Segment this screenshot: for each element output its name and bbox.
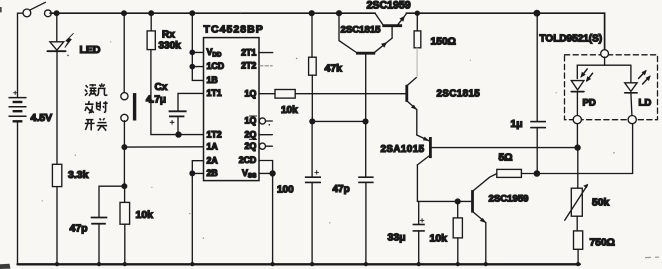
wire rail to pushbutton xyxy=(123,13,125,93)
wire Cx to 1T2 node xyxy=(177,116,179,134)
wire 5 ohm to LD node xyxy=(521,173,537,175)
svg-text:2B: 2B xyxy=(207,168,218,178)
label 3.3k xyxy=(68,169,89,181)
svg-text:47p: 47p xyxy=(333,184,350,195)
label 2SA1015 xyxy=(381,144,425,155)
laser module U2 TOLD9521(S) dashed enclosure xyxy=(565,55,658,120)
resistor R8 5 ohm xyxy=(497,169,522,177)
label 33μ xyxy=(388,232,406,244)
wire to pin VDD xyxy=(192,51,203,53)
node LED column joins V+ rail xyxy=(54,11,59,16)
svg-text:1B: 1B xyxy=(207,75,218,85)
pin 1T2 label xyxy=(207,129,222,139)
svg-text:5Ω: 5Ω xyxy=(499,153,513,164)
svg-text:2SC1959: 2SC1959 xyxy=(367,0,411,12)
capacitor C4 47p xyxy=(358,177,373,182)
node 1μ joins switched rail xyxy=(534,10,540,16)
pin 2T2 label and faint stub xyxy=(241,61,272,71)
wire 47k down crossing 1Q wire xyxy=(311,75,313,121)
label LED xyxy=(80,44,101,56)
pushbutton S2 laser fire switch xyxy=(121,93,136,122)
wire rail to LED anode xyxy=(56,13,58,41)
resistor 3.3k xyxy=(52,164,61,186)
wire PD terminal down to base node xyxy=(576,124,578,148)
node Cx bottom joins 1T2 wire xyxy=(176,132,181,137)
wire 2CD Vss to ground rail xyxy=(272,173,274,264)
wire pot to resistor 750 xyxy=(576,216,578,231)
pin 1Q label xyxy=(245,88,257,98)
wire C3 to ground rail xyxy=(311,182,313,264)
wire C4 to ground rail xyxy=(365,182,367,264)
svg-text:3.3k: 3.3k xyxy=(68,169,89,181)
label 5Ω xyxy=(499,153,513,164)
resistor Rx 330k xyxy=(147,31,155,50)
label Rx xyxy=(162,30,175,41)
svg-text:1T1: 1T1 xyxy=(207,88,222,98)
LED D1 xyxy=(47,33,73,56)
label 10k xyxy=(136,209,154,221)
label 750Ω xyxy=(590,238,615,249)
wire Rx to pin 1T2 xyxy=(151,50,204,135)
wire PD cathode to terminal xyxy=(576,92,578,116)
wire pins 2CD Vss tied xyxy=(259,161,273,174)
node ground junctions xyxy=(55,262,580,266)
node 150 ohm joins switched rail xyxy=(415,11,419,15)
label 47p xyxy=(70,223,88,235)
svg-text:1CD: 1CD xyxy=(207,61,225,71)
node Q1 collector joins V+ rail xyxy=(337,11,342,16)
node bias junction left xyxy=(310,119,315,124)
wire Q3 base to PD node xyxy=(432,147,578,149)
label 开关 xyxy=(85,118,107,130)
svg-text:150Ω: 150Ω xyxy=(431,37,456,48)
wire ground rail xyxy=(18,263,580,265)
pin 1Q-bar label with bubble and stub xyxy=(245,116,273,126)
photodiode PD xyxy=(571,69,592,92)
wire node B to capacitor 47p C2 xyxy=(99,186,124,217)
svg-text:2CD: 2CD xyxy=(239,155,257,165)
node C junction at 10k R7 xyxy=(455,199,460,204)
svg-text:2T2: 2T2 xyxy=(241,61,256,71)
transistor Q1 2SC1815 xyxy=(339,13,392,53)
wire node A down to node B xyxy=(123,147,125,186)
wire Q2 emitter to Q3 emitter xyxy=(416,110,418,135)
node pushbutton column joins V+ rail xyxy=(122,11,127,16)
svg-text:LED: LED xyxy=(80,44,101,56)
pin 2T1 label and stub xyxy=(241,47,273,57)
pin 1T1 label xyxy=(207,88,222,98)
terminal LD pin of U2 xyxy=(628,116,636,124)
wire bias junction left to right xyxy=(312,120,365,122)
pin 1A label xyxy=(207,142,219,152)
wire pin 1Q to resistor 10k R4 xyxy=(259,93,275,95)
svg-text:10k: 10k xyxy=(281,105,298,116)
label 2SC1959 xyxy=(367,0,411,12)
svg-text:1Q: 1Q xyxy=(245,88,257,98)
resistor R7 10k xyxy=(453,218,462,238)
switch S1 xyxy=(23,2,51,16)
pin 2A label xyxy=(207,155,219,165)
pin 1CD label xyxy=(207,61,225,71)
svg-text:2A: 2A xyxy=(207,155,219,165)
label 发射 xyxy=(85,101,108,113)
pin 2B label xyxy=(207,168,218,178)
transistor Q4 2SC1959 xyxy=(473,174,497,223)
op-amp U1 TC4528BP body xyxy=(204,38,260,181)
label TC4528BP xyxy=(204,24,264,36)
label 1μ xyxy=(511,119,523,130)
resistor R3 10k xyxy=(120,202,130,224)
label 47k xyxy=(325,63,343,75)
label 4.7μ xyxy=(146,95,166,106)
label 2SC1959 xyxy=(489,194,529,205)
svg-text:2Q: 2Q xyxy=(245,129,257,139)
wire node C to Q4 base xyxy=(417,200,471,202)
wire C5 to ground rail xyxy=(418,231,420,264)
svg-text:50k: 50k xyxy=(592,198,609,209)
label 2SC1815 xyxy=(341,25,382,36)
pin VDD label xyxy=(207,47,222,58)
wire pins 2A 2B tied xyxy=(192,161,203,174)
svg-text:LD: LD xyxy=(639,98,652,109)
label 150Ω xyxy=(431,37,456,48)
svg-text:10k: 10k xyxy=(136,209,154,221)
svg-text:2SC1815: 2SC1815 xyxy=(341,25,382,36)
capacitor C3 100 electrolytic xyxy=(305,170,321,182)
wire 1μ to LD drive node crossing base wire xyxy=(536,128,538,174)
wire top rail switched segment xyxy=(406,13,604,50)
svg-text:PD: PD xyxy=(583,98,596,109)
svg-text:47k: 47k xyxy=(325,63,343,75)
terminal PD pin of U2 xyxy=(573,116,581,124)
svg-text:2SA1015: 2SA1015 xyxy=(381,144,425,155)
resistor R6 150 ohm xyxy=(414,31,421,48)
label 47p xyxy=(333,184,350,195)
node pin VDD tie xyxy=(190,50,194,54)
wire R4 to base of Q2 xyxy=(295,93,405,95)
wire rail to capacitor 1μ xyxy=(536,13,538,121)
laser diode LD xyxy=(625,70,651,93)
svg-text:Rx: Rx xyxy=(162,30,175,41)
wire rail to resistor Rx xyxy=(150,13,152,31)
capacitor C2 47p xyxy=(91,218,108,224)
resistor R9 750 ohm xyxy=(574,231,583,249)
label 2SC1815 xyxy=(437,89,481,100)
svg-text:2T1: 2T1 xyxy=(241,47,256,57)
battery B1 4.5V xyxy=(9,91,27,122)
pin Vss label xyxy=(242,168,256,179)
label PD xyxy=(583,98,596,109)
wire LD drive node to LD terminal xyxy=(537,124,633,174)
label 10k xyxy=(281,105,298,116)
svg-text:1Q: 1Q xyxy=(245,116,257,126)
wire node B to resistor 10k R3 xyxy=(124,186,126,202)
wire bias node to capacitor 100 xyxy=(311,121,313,176)
svg-text:100: 100 xyxy=(277,185,294,196)
wire R3 to ground rail xyxy=(124,224,126,264)
svg-text:33μ: 33μ xyxy=(388,232,406,244)
svg-text:4.7μ: 4.7μ xyxy=(146,95,166,106)
node Rx joins V+ rail xyxy=(149,11,154,16)
wire to pin 1CD xyxy=(192,66,203,68)
wire node A to IC pin 1A xyxy=(124,146,203,148)
transistor Q3 2SA1015 xyxy=(417,135,431,165)
wire Q1 base column down to bias node and capacitor 47p xyxy=(365,54,367,177)
svg-text:4.5V: 4.5V xyxy=(31,112,53,124)
wire 750 ohm to ground rail end xyxy=(577,249,579,264)
node A below pushbutton xyxy=(122,145,127,150)
potentiometer RP1 50k xyxy=(565,184,589,221)
wire top rail V+ left segment xyxy=(50,12,375,14)
capacitor Cx 4.7μ xyxy=(169,111,187,124)
svg-text:10k: 10k xyxy=(430,233,448,245)
wire base node to potentiometer 50k xyxy=(577,148,579,189)
node LD drive junction xyxy=(534,171,539,176)
wire node C to resistor 10k R7 xyxy=(457,201,459,218)
pin 1B label xyxy=(207,75,218,85)
svg-text:1T2: 1T2 xyxy=(207,129,222,139)
pin 2Q label with stub xyxy=(245,129,273,139)
node 2A 2B junction xyxy=(190,171,195,176)
wire rail to resistor 47k xyxy=(311,13,313,57)
wire R7 to ground rail xyxy=(457,238,459,264)
wire battery negative lead xyxy=(17,121,19,264)
node VDD supply column joins V+ rail xyxy=(190,11,195,16)
wire LD to terminal xyxy=(631,93,632,116)
wire battery positive lead xyxy=(18,13,23,96)
svg-text:TOLD9521(S): TOLD9521(S) xyxy=(540,34,603,45)
svg-text:330k: 330k xyxy=(159,41,182,52)
wire Q4 emitter to ground rail xyxy=(485,223,487,265)
wire rail down to pins VDD 1CD 1B xyxy=(192,13,203,80)
svg-text:750Ω: 750Ω xyxy=(590,238,615,249)
label 100 xyxy=(277,185,294,196)
svg-text:1μ: 1μ xyxy=(511,119,523,130)
label Cx xyxy=(155,82,168,93)
svg-text:2Q: 2Q xyxy=(245,141,257,151)
wire 150 ohm to Q2 collector xyxy=(407,48,417,86)
label TOLD9521(S) xyxy=(540,34,603,45)
node PD base junction xyxy=(575,145,580,150)
node pin 1CD tie xyxy=(190,64,194,68)
resistor R5 47k xyxy=(309,57,317,75)
label 激光 xyxy=(85,83,108,96)
wire pushbutton to node A and pin 1A xyxy=(123,121,125,147)
label 50k xyxy=(592,198,609,209)
svg-text:2SC1959: 2SC1959 xyxy=(489,194,529,205)
wire Q3 collector down to node C xyxy=(416,165,418,202)
wire U2 internal common xyxy=(577,57,631,83)
wire 3.3k to ground rail xyxy=(56,187,58,265)
wire C2 to ground rail xyxy=(98,224,100,265)
svg-text:1A: 1A xyxy=(207,142,219,152)
wire 2A 2B to ground rail xyxy=(191,173,193,264)
capacitor C5 33μ electrolytic xyxy=(413,218,425,231)
node B xyxy=(122,184,127,189)
svg-text:47p: 47p xyxy=(70,223,88,235)
transistor Q0 2SC1959 driver xyxy=(375,14,406,39)
label 330k xyxy=(159,41,182,52)
pin 2Q-bar label with bubble and stub xyxy=(245,141,273,151)
pin 2CD label xyxy=(239,155,257,165)
label LD xyxy=(639,98,652,109)
transistor Q2 2SC1815 xyxy=(407,85,417,110)
svg-text:TC4528BP: TC4528BP xyxy=(204,24,264,36)
label 4.5V xyxy=(31,112,53,124)
capacitor C6 1μ xyxy=(530,122,546,128)
label 10k xyxy=(430,233,448,245)
terminal top pin of U2 xyxy=(601,50,609,58)
wire node C to capacitor 33μ xyxy=(418,201,420,224)
node 47k column joins V+ rail xyxy=(309,11,314,16)
resistor R4 10k xyxy=(275,90,295,99)
node bias junction right xyxy=(363,119,368,124)
svg-text:2SC1815: 2SC1815 xyxy=(437,89,481,100)
wire LED cathode to R 3.3k xyxy=(56,51,58,164)
node 2CD Vss junction xyxy=(270,171,275,176)
wire pin 1T1 to capacitor Cx xyxy=(178,93,204,111)
svg-text:Cx: Cx xyxy=(155,82,168,93)
wire rail to resistor 150 xyxy=(416,13,418,31)
